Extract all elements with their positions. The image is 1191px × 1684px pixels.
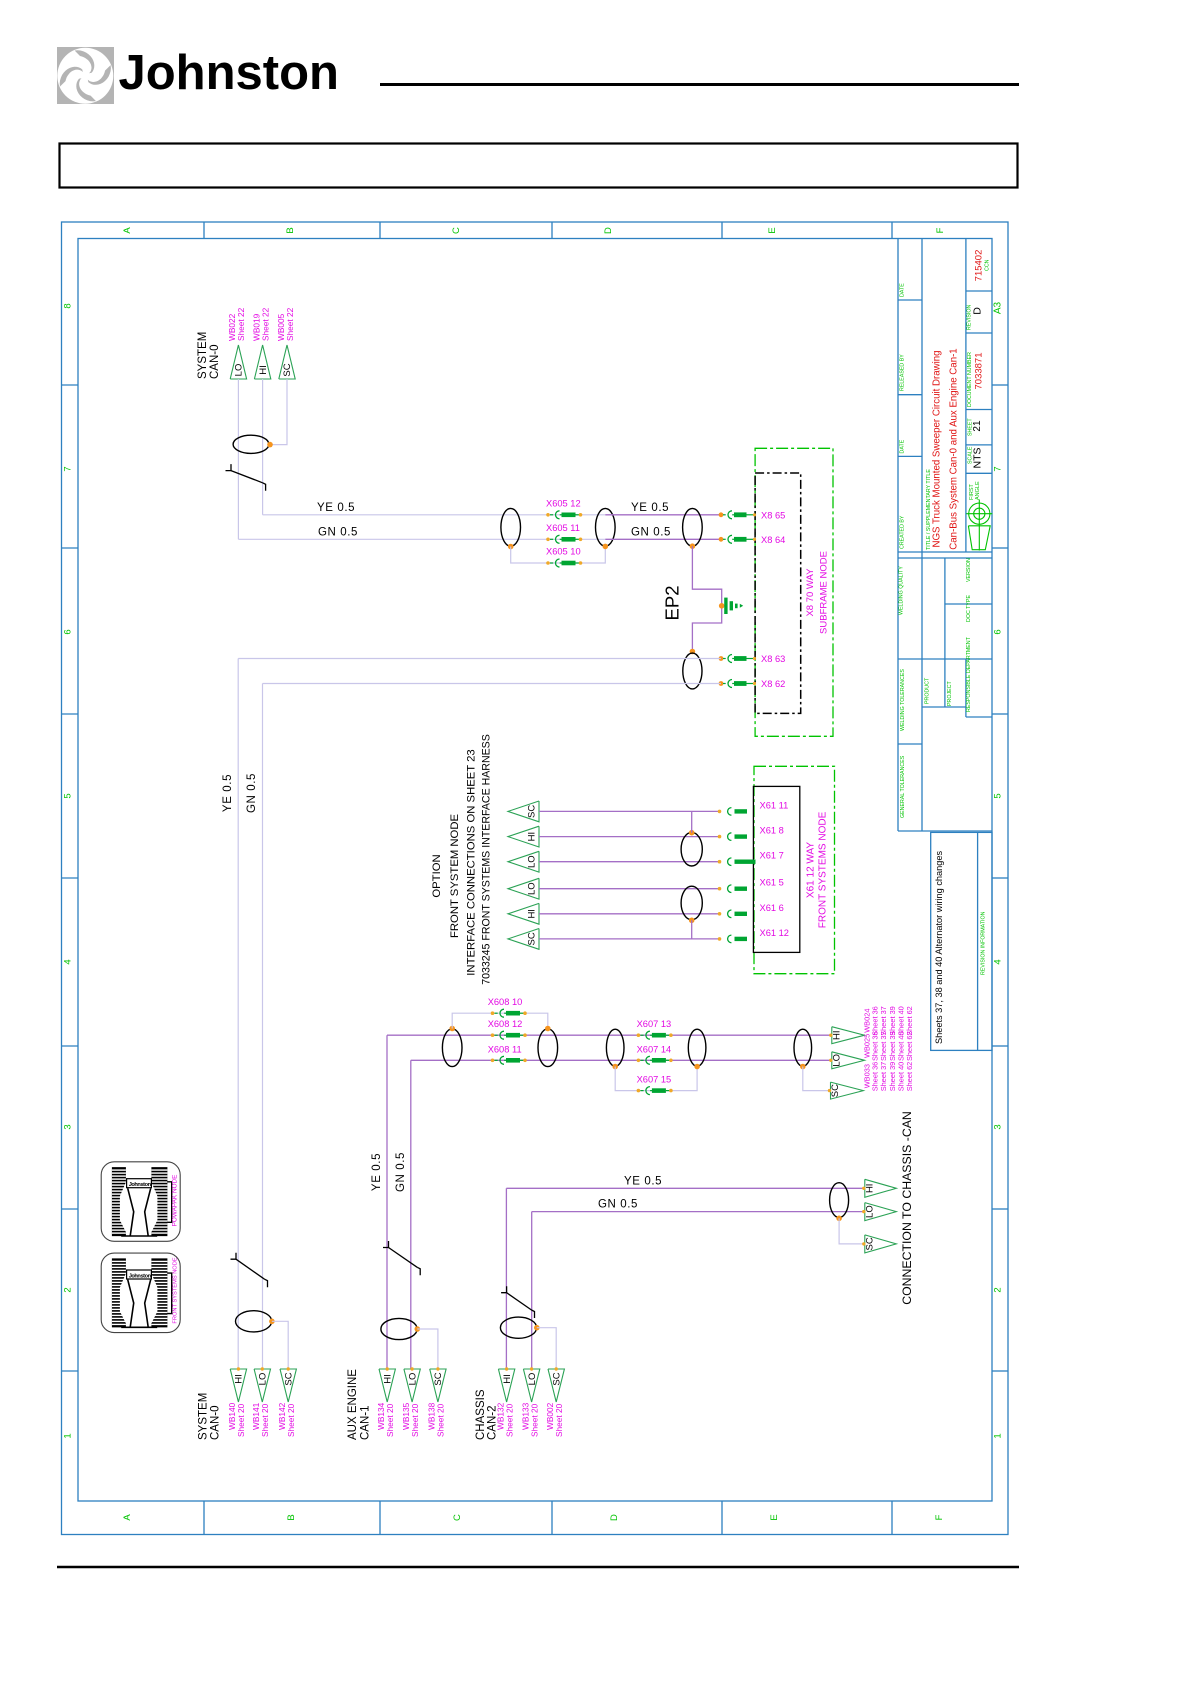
svg-text:8: 8	[63, 303, 74, 308]
label WB142 Sheet 20	[277, 1402, 296, 1437]
label WB135 Sheet 20	[401, 1402, 420, 1437]
wire to X61 12	[539, 938, 720, 940]
svg-text:A: A	[122, 227, 133, 234]
wire LO down from triangle	[237, 379, 239, 539]
off-page connector triangle HI (top SYSTEM CAN-0)	[254, 345, 270, 379]
cable ellipse before X605	[501, 508, 521, 549]
svg-text:X605 10: X605 10	[546, 547, 581, 557]
triangle LO for X61 7	[508, 851, 539, 872]
svg-text:D: D	[609, 1514, 620, 1521]
svg-text:Can-Bus System Can-0 and Aux E: Can-Bus System Can-0 and Aux Engine Can-…	[948, 348, 959, 549]
wire HI down from triangle	[262, 379, 264, 515]
label WB022 Sheet 22	[227, 307, 246, 341]
pin X8 64	[719, 535, 786, 545]
svg-text:HI: HI	[258, 365, 269, 375]
wire to X61 8	[539, 836, 720, 838]
cable ellipse (AUX ENGINE CAN-1)	[381, 1318, 420, 1339]
wire YE 0.5 horizontal (lavender)	[263, 514, 606, 516]
svg-text:CAN-1: CAN-1	[360, 1405, 372, 1440]
svg-text:GN 0.5: GN 0.5	[318, 526, 358, 538]
svg-text:AUX ENGINE: AUX ENGINE	[347, 1369, 359, 1440]
wire chassis HI vertical	[505, 1188, 507, 1369]
svg-text:Johnston: Johnston	[129, 1182, 152, 1188]
svg-text:YE 0.5: YE 0.5	[631, 502, 669, 514]
svg-text:HI: HI	[527, 832, 538, 842]
pin X61 12	[718, 928, 789, 943]
wire GN vertical to bottom SYSTEM CAN-0	[262, 684, 264, 1370]
triangle LO (CHASSIS CAN-2)	[523, 1367, 539, 1402]
svg-text:FRONT SYSTEMS NODE: FRONT SYSTEMS NODE	[172, 1257, 178, 1323]
svg-text:B: B	[286, 1514, 297, 1520]
svg-text:SC: SC	[551, 1372, 562, 1385]
triangle SC (to sheets)	[828, 1082, 864, 1099]
svg-text:X608 12: X608 12	[488, 1019, 523, 1029]
label WB002 Sheet 20	[545, 1402, 564, 1437]
svg-text:SC: SC	[830, 1084, 841, 1097]
svg-text:Sheet 22: Sheet 22	[260, 307, 270, 341]
svg-text:Sheet 20: Sheet 20	[385, 1403, 395, 1437]
svg-text:RESPONSIBLE DEPARTMENT: RESPONSIBLE DEPARTMENT	[966, 636, 972, 712]
X8 subframe node box (green dash-dot)	[755, 448, 833, 736]
svg-text:HI: HI	[502, 1374, 513, 1384]
svg-text:E: E	[769, 1514, 780, 1520]
triangle HI (CHASSIS CAN-2)	[498, 1367, 514, 1402]
svg-text:Sheet 22: Sheet 22	[236, 307, 246, 341]
pin X61 8	[718, 826, 784, 841]
cable ellipse X61 upper	[681, 830, 702, 866]
pin X8 63	[719, 654, 786, 664]
cable ellipse chassis	[830, 1183, 849, 1221]
svg-text:EP2: EP2	[662, 586, 683, 621]
triangle HI (AUX ENGINE CAN-1)	[379, 1367, 395, 1402]
svg-text:3: 3	[992, 1124, 1003, 1129]
wire to X61 11	[539, 810, 720, 812]
triangle SC for X61 11	[508, 801, 539, 822]
cable ellipse X61 lower	[681, 886, 702, 923]
cable ellipse (top SYSTEM CAN-0)	[233, 435, 273, 453]
svg-text:X61 6: X61 6	[760, 903, 784, 913]
svg-text:Sheet 20: Sheet 20	[286, 1403, 296, 1437]
svg-text:Sheet 20: Sheet 20	[236, 1403, 246, 1437]
svg-text:Sheet 20: Sheet 20	[260, 1403, 270, 1437]
svg-text:D: D	[603, 227, 614, 234]
off-page connector triangle SC (top SYSTEM CAN-0)	[279, 345, 295, 379]
svg-text:B: B	[285, 227, 296, 233]
svg-text:7033871: 7033871	[974, 353, 985, 390]
wire YE 0.5 chassis	[506, 1187, 864, 1189]
svg-text:X605 12: X605 12	[546, 499, 581, 509]
svg-text:CAN-2: CAN-2	[487, 1405, 499, 1440]
wire to X61 5	[539, 888, 720, 890]
triangle HI for X61 6	[508, 903, 539, 924]
svg-text:SC: SC	[282, 363, 293, 376]
svg-text:GN 0.5: GN 0.5	[631, 526, 671, 538]
svg-text:4: 4	[992, 959, 1003, 964]
svg-text:CREATED BY: CREATED BY	[900, 515, 906, 549]
connector X608 12	[488, 1019, 527, 1039]
cable ellipse after X605	[596, 508, 616, 549]
svg-text:Johnston: Johnston	[119, 46, 339, 100]
svg-text:GN 0.5: GN 0.5	[598, 1199, 638, 1211]
svg-text:Sheet 20: Sheet 20	[554, 1403, 564, 1437]
svg-text:VERSION: VERSION	[966, 558, 972, 582]
title block values	[932, 250, 985, 550]
svg-text:SC: SC	[527, 932, 538, 945]
svg-text:GN 0.5: GN 0.5	[246, 773, 258, 813]
revision information box	[931, 832, 992, 1050]
bypass wire lower ellipse to SC	[691, 920, 693, 939]
label X8 70 WAY SUBFRAME NODE	[805, 551, 830, 634]
junction dot at lower cable ellipse	[690, 649, 696, 655]
bypass wire X607 15	[615, 1067, 697, 1091]
wire X8 63 (lavender)	[238, 658, 721, 660]
cable ellipse at X8 node	[683, 508, 703, 549]
svg-text:A: A	[122, 1514, 133, 1521]
svg-text:NTS: NTS	[971, 448, 983, 469]
svg-text:CAN-0: CAN-0	[209, 344, 221, 379]
connector X605 12	[546, 499, 582, 519]
svg-text:INTERFACE CONNECTIONS ON SHEET: INTERFACE CONNECTIONS ON SHEET 23	[466, 749, 478, 975]
wire SC branch	[537, 1328, 556, 1369]
svg-text:LO: LO	[527, 1373, 538, 1386]
svg-text:LO: LO	[407, 1373, 418, 1386]
svg-text:HI: HI	[234, 1374, 245, 1384]
svg-text:C: C	[452, 1514, 463, 1521]
wire EP2 screen drain	[692, 546, 721, 650]
svg-text:X8 65: X8 65	[761, 510, 785, 520]
cable ellipse (SYSTEM CAN-0)	[236, 1311, 275, 1332]
triangle LO for X61 5	[508, 878, 539, 899]
twisted pair break (CHASSIS CAN-2)	[501, 1286, 534, 1318]
triangle SC (chassis)	[862, 1235, 896, 1253]
svg-text:LO: LO	[234, 364, 245, 377]
cable ellipse e5	[794, 1029, 812, 1069]
svg-text:X61 11: X61 11	[760, 800, 789, 810]
svg-text:WELDING TOLERANCES: WELDING TOLERANCES	[900, 669, 906, 731]
svg-text:4: 4	[63, 959, 74, 964]
wire YE vertical to AUX ENGINE CAN-1	[386, 1035, 388, 1369]
POWAPAK NODE icon	[101, 1162, 180, 1242]
svg-text:NGS Truck Mounted Sweeper Circ: NGS Truck Mounted Sweeper Circuit Drawin…	[932, 350, 943, 547]
svg-text:FRONT SYSTEMS NODE: FRONT SYSTEMS NODE	[817, 811, 828, 928]
twisted pair break (top SYSTEM CAN-0)	[226, 464, 266, 491]
svg-text:FRONT SYSTEM NODE: FRONT SYSTEM NODE	[449, 814, 461, 939]
svg-text:Sheet 62: Sheet 62	[905, 1006, 914, 1036]
svg-text:F: F	[934, 1514, 945, 1520]
connector X607 15	[637, 1075, 673, 1095]
svg-text:CCN: CCN	[985, 259, 991, 271]
svg-text:YE 0.5: YE 0.5	[317, 502, 355, 514]
triangle HI (to sheets)	[829, 1027, 864, 1044]
svg-text:WELDING QUALITY: WELDING QUALITY	[899, 566, 905, 615]
svg-text:1: 1	[63, 1433, 74, 1438]
wire YE 0.5 to X8 65	[605, 514, 722, 516]
svg-text:RELEASED BY: RELEASED BY	[900, 354, 906, 391]
svg-text:7: 7	[63, 466, 74, 471]
svg-text:6: 6	[992, 629, 1003, 634]
svg-text:Sheet 20: Sheet 20	[504, 1403, 514, 1437]
wire SC branch	[417, 1329, 438, 1369]
bypass wire through X605 10	[511, 546, 606, 563]
triangle SC (AUX ENGINE CAN-1)	[430, 1367, 446, 1402]
svg-text:PRODUCT: PRODUCT	[925, 677, 931, 704]
option note text block	[431, 734, 493, 985]
triangle SC for X61 12	[508, 929, 539, 950]
svg-text:LO: LO	[831, 1054, 842, 1067]
svg-text:21: 21	[972, 420, 983, 432]
svg-text:1: 1	[992, 1433, 1003, 1438]
svg-text:DOC TYPE: DOC TYPE	[966, 595, 972, 622]
svg-text:6: 6	[63, 629, 74, 634]
triangle HI (chassis)	[862, 1179, 896, 1197]
first-angle projection symbol	[966, 500, 992, 551]
svg-text:DOCUMENT NUMBER: DOCUMENT NUMBER	[967, 352, 973, 407]
svg-text:X61 5: X61 5	[760, 878, 784, 888]
label block WB033 sheets	[862, 1062, 914, 1092]
wire YE vertical to bottom SYSTEM CAN-0	[237, 659, 239, 1370]
svg-text:X61 8: X61 8	[760, 826, 784, 836]
svg-text:YE 0.5: YE 0.5	[222, 774, 234, 812]
svg-text:HI: HI	[527, 909, 538, 919]
connector X608 10	[488, 997, 527, 1017]
svg-text:CHASSIS: CHASSIS	[475, 1389, 487, 1440]
svg-text:OPTION: OPTION	[431, 854, 443, 897]
title block small green labels	[899, 259, 991, 818]
svg-text:LO: LO	[527, 855, 538, 868]
twisted pair break (SYSTEM CAN-0)	[231, 1253, 268, 1288]
cable ellipse (CHASSIS CAN-2)	[500, 1317, 539, 1338]
svg-text:X61 12: X61 12	[760, 928, 789, 938]
svg-text:ANGLE: ANGLE	[975, 481, 981, 500]
svg-text:X61 7: X61 7	[760, 851, 784, 861]
label AUX ENGINE CAN-1	[347, 1369, 372, 1440]
svg-text:HI: HI	[864, 1184, 875, 1194]
wire X8 62 (lavender)	[263, 683, 722, 685]
cable ellipse at X8 63/62	[683, 653, 702, 689]
svg-text:SC: SC	[283, 1372, 294, 1385]
twisted pair break (AUX ENGINE CAN-1)	[383, 1241, 420, 1275]
label WB134 Sheet 20	[376, 1402, 395, 1437]
X8 connector outline (black dash-dot)	[755, 473, 801, 713]
svg-text:Sheets 37, 38 and 40 Alternato: Sheets 37, 38 and 40 Alternator wiring c…	[934, 851, 944, 1044]
wire to X61 6	[539, 913, 720, 915]
wire SC drop chassis	[839, 1218, 865, 1244]
label block WB024 sheets	[862, 1006, 914, 1036]
wire chassis LO vertical	[531, 1212, 533, 1369]
svg-text:X8 70 WAY: X8 70 WAY	[805, 568, 816, 617]
svg-text:GN 0.5: GN 0.5	[395, 1152, 407, 1192]
triangle LO (to sheets)	[829, 1052, 864, 1069]
label WB133 Sheet 20	[520, 1402, 539, 1437]
bypass wire X608 10	[452, 1013, 548, 1028]
wire GN 0.5 to X8 64	[605, 538, 722, 540]
svg-text:GENERAL TOLERANCES: GENERAL TOLERANCES	[900, 755, 906, 818]
svg-text:7: 7	[992, 466, 1003, 471]
svg-text:D: D	[972, 307, 984, 315]
svg-text:CAN-0: CAN-0	[209, 1405, 221, 1440]
triangle HI (SYSTEM CAN-0)	[230, 1367, 246, 1402]
cable ellipse e1	[442, 1026, 462, 1067]
svg-text:X605 11: X605 11	[546, 523, 580, 533]
svg-text:SUBFRAME NODE: SUBFRAME NODE	[819, 551, 830, 634]
ground symbol EP2	[719, 598, 743, 614]
svg-text:Sheet 62: Sheet 62	[905, 1062, 914, 1092]
wire SC down from triangle to junction	[272, 379, 288, 445]
svg-text:F: F	[935, 227, 946, 233]
empty header box	[60, 144, 1018, 188]
svg-text:X607 14: X607 14	[637, 1044, 672, 1054]
svg-text:X8 64: X8 64	[761, 535, 785, 545]
label SYSTEM CAN-0 (top)	[197, 332, 221, 379]
connector X607 14	[637, 1044, 673, 1064]
svg-text:SC: SC	[433, 1372, 444, 1385]
svg-text:Sheet 62: Sheet 62	[905, 1031, 914, 1061]
label WB005 Sheet 22	[276, 307, 295, 341]
svg-text:X607 13: X607 13	[637, 1019, 672, 1029]
svg-text:A3: A3	[992, 301, 1003, 314]
svg-text:DATE: DATE	[900, 439, 906, 453]
X61 connector outline (black)	[753, 786, 799, 952]
wire to X61 7	[539, 861, 720, 863]
pin X61 5	[718, 878, 784, 893]
footer rule line	[57, 1566, 1019, 1568]
wire GN 0.5 horizontal (lavender)	[238, 538, 605, 540]
svg-text:3: 3	[63, 1124, 74, 1129]
pin X61 6	[718, 903, 784, 918]
pin X61 7	[718, 851, 784, 866]
svg-text:5: 5	[63, 793, 74, 798]
svg-text:Johnston: Johnston	[129, 1273, 152, 1279]
connector X608 11	[488, 1044, 527, 1064]
svg-text:REVISION INFORMATION: REVISION INFORMATION	[980, 911, 986, 975]
svg-text:HI: HI	[831, 1030, 842, 1040]
wire GN 0.5 chassis	[532, 1211, 865, 1213]
svg-text:Sheet 20: Sheet 20	[529, 1403, 539, 1437]
pin X8 62	[719, 679, 786, 689]
svg-text:X61 12 WAY: X61 12 WAY	[805, 842, 816, 898]
connector X607 13	[637, 1019, 673, 1039]
svg-text:Sheet 20: Sheet 20	[410, 1403, 420, 1437]
svg-text:Sheet 22: Sheet 22	[285, 307, 295, 341]
svg-text:CONNECTION TO CHASSIS -CAN: CONNECTION TO CHASSIS -CAN	[900, 1111, 914, 1305]
svg-text:X608 10: X608 10	[488, 997, 523, 1007]
svg-text:X8 63: X8 63	[761, 654, 785, 664]
wire SC drop to triangle	[803, 1067, 831, 1091]
svg-text:YE 0.5: YE 0.5	[624, 1175, 662, 1187]
svg-text:7033245 FRONT SYSTEMS INTERFAC: 7033245 FRONT SYSTEMS INTERFACE HARNESS	[481, 734, 493, 985]
svg-text:E: E	[767, 227, 778, 233]
svg-text:X607 15: X607 15	[637, 1075, 672, 1085]
svg-text:LO: LO	[527, 882, 538, 895]
svg-text:HI: HI	[382, 1374, 393, 1384]
bypass wire SC to upper ellipse	[691, 811, 693, 832]
svg-text:LO: LO	[258, 1373, 269, 1386]
wire CAN LO (X608/X607 bus)	[411, 1059, 832, 1061]
svg-text:C: C	[451, 227, 462, 234]
triangle SC (CHASSIS CAN-2)	[548, 1367, 564, 1402]
svg-text:2: 2	[992, 1287, 1003, 1292]
svg-text:LO: LO	[864, 1205, 875, 1218]
pin X8 65	[719, 510, 786, 520]
label CHASSIS CAN-2	[475, 1389, 499, 1440]
connector X605 11	[546, 523, 582, 543]
triangle HI for X61 8	[508, 826, 539, 847]
X61 front systems node box (green dash-dot)	[754, 766, 835, 973]
cable ellipse e4	[688, 1029, 706, 1069]
svg-text:5: 5	[992, 793, 1003, 798]
svg-text:SYSTEM: SYSTEM	[197, 332, 209, 379]
svg-text:YE 0.5: YE 0.5	[371, 1153, 383, 1191]
FRONT SYSTEMS NODE icon	[101, 1253, 180, 1333]
label X61 12 WAY FRONT SYSTEMS NODE	[805, 811, 828, 928]
svg-text:X8 62: X8 62	[761, 679, 785, 689]
label WB140 Sheet 20	[227, 1402, 246, 1437]
svg-text:PROJECT: PROJECT	[947, 681, 953, 706]
wire CAN HI (X608/X607 bus)	[387, 1034, 832, 1036]
triangle LO (SYSTEM CAN-0)	[254, 1367, 270, 1402]
svg-text:DATE: DATE	[900, 283, 906, 297]
off-page connector triangle LO (top SYSTEM CAN-0)	[230, 345, 246, 379]
wire GN vertical to AUX ENGINE CAN-1	[410, 1060, 412, 1369]
title block grid	[898, 239, 992, 831]
svg-text:POWAPAK NODE: POWAPAK NODE	[171, 1175, 178, 1227]
header rule line	[380, 83, 1019, 86]
triangle LO (AUX ENGINE CAN-1)	[404, 1367, 420, 1402]
cable ellipse e2	[538, 1026, 558, 1067]
svg-text:SYSTEM: SYSTEM	[198, 1393, 210, 1440]
svg-text:SC: SC	[864, 1237, 875, 1250]
label block WB025 sheets	[862, 1031, 914, 1061]
svg-text:SC: SC	[527, 805, 538, 818]
triangle SC (SYSTEM CAN-0)	[280, 1367, 296, 1402]
svg-text:X608 11: X608 11	[488, 1044, 522, 1054]
label WB019 Sheet 22	[251, 307, 270, 341]
svg-text:2: 2	[63, 1287, 74, 1292]
wire SC branch	[272, 1321, 288, 1369]
triangle LO (chassis)	[862, 1203, 896, 1221]
cable ellipse e3	[606, 1029, 624, 1069]
label WB141 Sheet 20	[251, 1402, 270, 1437]
Johnston logo mark (grey square with swirl)	[57, 47, 114, 104]
svg-text:Sheet 20: Sheet 20	[436, 1403, 446, 1437]
label WB138 Sheet 20	[427, 1402, 446, 1437]
label WB132 Sheet 20	[495, 1402, 514, 1437]
connector X605 10	[546, 547, 582, 567]
pin X61 11	[718, 800, 789, 815]
label SYSTEM CAN-0	[198, 1393, 222, 1440]
svg-text:715402: 715402	[974, 250, 985, 282]
